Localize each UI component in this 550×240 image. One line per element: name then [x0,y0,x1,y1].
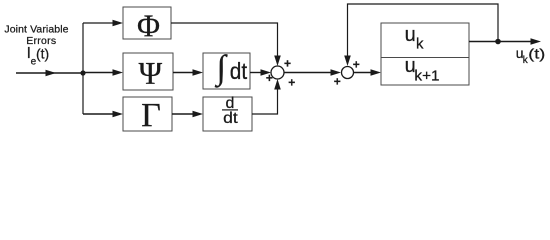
node: output junction dot [495,39,501,45]
wire: branch to Gamma block [83,111,123,118]
wire: u block output [469,38,541,45]
label: Joint Variable Errors [4,23,68,47]
node: output label u_k(t) [516,45,546,66]
block PHI [123,7,171,44]
svg-text:Φ: Φ [137,9,160,44]
svg-text:(t): (t) [528,46,545,62]
svg-text:(t): (t) [36,45,49,61]
svg-text:+: + [266,71,273,85]
svg-text:Ψ: Ψ [138,55,162,91]
svg-text:+: + [334,75,341,89]
svg-text:k: k [416,36,424,53]
wire: branch to Phi block [83,20,123,27]
wire: S1 output to S2 [284,69,341,76]
wire: input arrow into junction [16,70,83,77]
wire: Gamma to d/dt block [172,111,203,118]
svg-text:+: + [284,56,291,70]
block PSI [123,53,173,91]
summing junction S2 [342,67,354,79]
svg-text:+: + [353,58,360,72]
block memory u_k / u_k+1 [381,23,469,85]
block differentiator d/dt [203,95,252,131]
svg-text:k+1: k+1 [414,68,439,85]
svg-text:dt: dt [223,110,238,127]
svg-text:dt: dt [230,58,248,84]
svg-text:Γ: Γ [141,97,161,134]
block GAMMA [123,97,172,134]
node: branch junction dot [80,70,85,75]
wire: S2 output into u block [354,69,382,76]
svg-text:u: u [405,24,416,46]
wire: d/dt output to summing junction 1 (bottom) [252,79,281,114]
svg-text:+: + [288,76,295,90]
wire: feedback loop from output dot to S2 top [344,4,498,66]
wire: integrator to summing junction 1 [250,69,271,76]
wire: vertical branch line [82,23,84,114]
svg-text:Joint Variable: Joint Variable [4,23,68,35]
block integrator ∫dt [203,49,250,89]
node I_e(t) input signal label [27,45,50,68]
wire: Psi to integral block [173,69,203,76]
wire: branch to Psi block [83,69,123,76]
wire: Phi output to summing junction 1 (top) [171,23,281,66]
summing junction S1 [271,66,284,79]
